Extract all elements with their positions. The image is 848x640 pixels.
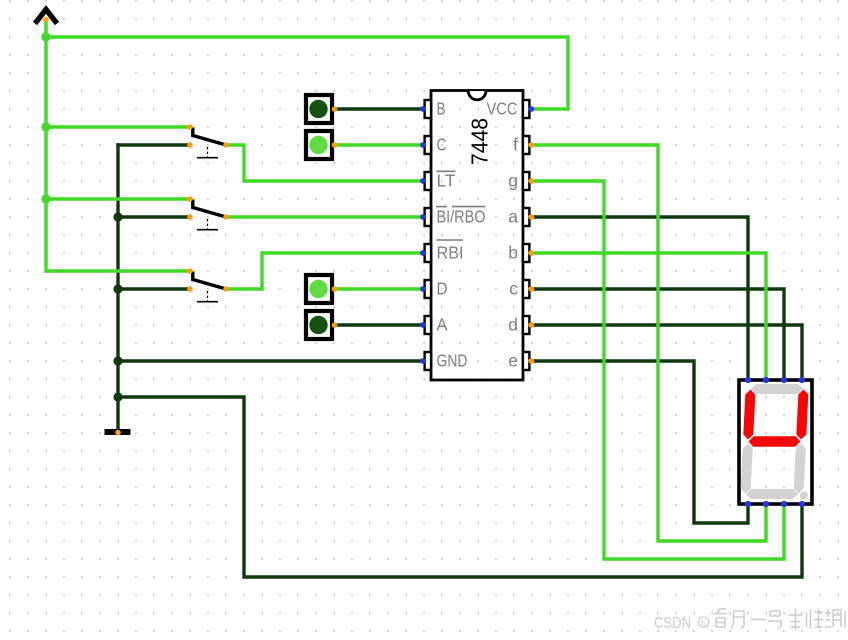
svg-text:A: A bbox=[437, 315, 448, 335]
svg-text:C: C bbox=[437, 135, 447, 155]
segment c (off) bbox=[793, 444, 805, 494]
pin dots U1 right (orange) bbox=[528, 142, 534, 364]
junction node: power bus at switch1 bbox=[41, 122, 50, 131]
wire dark: segment a bbox=[532, 217, 748, 379]
svg-text:B: B bbox=[437, 99, 446, 119]
pin stubs U1 left bbox=[425, 100, 432, 370]
segment d (off) bbox=[746, 489, 798, 499]
svg-text:d: d bbox=[508, 315, 518, 335]
junction node: ground bus at common wire bbox=[113, 392, 122, 401]
pin label BI/RBO bbox=[436, 207, 486, 227]
svg-text:RBI: RBI bbox=[437, 243, 464, 263]
op IC U1 7448 body bbox=[431, 91, 523, 381]
svg-text:b: b bbox=[508, 243, 518, 263]
pin label LT bbox=[437, 171, 456, 191]
watermark bbox=[654, 615, 709, 632]
segment dp (off) bbox=[800, 492, 808, 500]
svg-text:c: c bbox=[509, 279, 518, 299]
logic probe B bbox=[306, 95, 337, 123]
wire dark: switch1 lower contact bbox=[116, 143, 190, 146]
segment f (on) bbox=[743, 390, 755, 440]
wire dark: segment d bbox=[532, 325, 802, 379]
junction node: ground bus at switch3 bbox=[113, 284, 122, 293]
wire dark: switch2 lower contact bbox=[118, 215, 190, 218]
switch SW2 bbox=[187, 196, 229, 230]
display pin dots bottom bbox=[745, 501, 805, 507]
svg-text:a: a bbox=[508, 207, 518, 227]
wire green: power vertical bus bbox=[44, 19, 47, 273]
logic probe D bbox=[306, 275, 337, 303]
wire dark: ground bus to display common bbox=[118, 397, 802, 577]
junction node: ground bus at switch2 bbox=[113, 212, 122, 221]
wire green: switch2 pole to BI/RBO bbox=[226, 215, 424, 218]
junction node: ground bus at GND wire bbox=[113, 356, 122, 365]
logic probe A bbox=[306, 311, 337, 339]
display pin dots top bbox=[745, 377, 805, 383]
7-segment display DS1 bbox=[739, 380, 812, 504]
ground symbol bbox=[105, 429, 131, 435]
junction node: power bus at switch2 bbox=[41, 194, 50, 203]
svg-text:CSDN: CSDN bbox=[654, 615, 691, 632]
wire green: top run to VCC bbox=[44, 37, 568, 109]
pin dots U1 left (blue) bbox=[420, 106, 426, 364]
segment a (off) bbox=[751, 384, 803, 394]
wire green: bus to switch2 bbox=[46, 197, 190, 200]
wire green: switch1 pole to LT bbox=[226, 145, 424, 181]
wire green: probe C to pin C bbox=[334, 143, 424, 146]
wire dark: probe A to pin A bbox=[334, 323, 424, 326]
switch SW3 bbox=[187, 268, 229, 302]
svg-text:LT: LT bbox=[437, 171, 456, 191]
svg-text:g: g bbox=[508, 171, 518, 191]
wire green: probe D to pin D bbox=[334, 287, 424, 290]
power terminal dot bbox=[43, 17, 49, 23]
watermark CJK strokes bbox=[714, 609, 845, 630]
svg-text:f: f bbox=[513, 135, 518, 155]
svg-text:a: a bbox=[701, 618, 706, 628]
segment e (off) bbox=[740, 444, 752, 494]
wire dark: probe B to pin B bbox=[334, 107, 424, 110]
pin dot VCC (blue) bbox=[528, 106, 534, 112]
wire dark: ground bus to GND pin bbox=[118, 359, 424, 362]
wire green: segment g bbox=[532, 181, 784, 559]
svg-text:7448: 7448 bbox=[467, 118, 493, 165]
switch SW1 bbox=[187, 124, 229, 158]
pin stubs U1 right bbox=[523, 100, 530, 370]
svg-text:e: e bbox=[508, 351, 518, 371]
svg-text:BI/RBO: BI/RBO bbox=[437, 207, 486, 227]
wire green: switch3 pole to RBI bbox=[226, 253, 424, 289]
svg-text:GND: GND bbox=[437, 351, 468, 371]
wire dark: switch3 lower contact bbox=[118, 287, 190, 290]
logic probe C bbox=[306, 131, 337, 159]
pin label RBI bbox=[437, 240, 464, 263]
wire green: bus to switch1 bbox=[46, 125, 190, 128]
wire dark: segment c bbox=[532, 289, 784, 379]
segment b (on) bbox=[796, 390, 808, 440]
wire dark: segment e bbox=[532, 361, 748, 523]
wire green: segment f bbox=[532, 145, 766, 541]
svg-text:D: D bbox=[437, 279, 448, 299]
power arrow symbol bbox=[35, 10, 57, 24]
junction node: power bus top bbox=[41, 32, 50, 41]
wire green: segment b bbox=[532, 253, 766, 379]
wire dark: left vertical bus to ground bbox=[116, 143, 119, 431]
segment g (on) bbox=[748, 436, 801, 447]
svg-text:VCC: VCC bbox=[487, 99, 518, 119]
display segments bbox=[740, 384, 813, 500]
wire green: bus to switch3 bbox=[44, 269, 190, 272]
